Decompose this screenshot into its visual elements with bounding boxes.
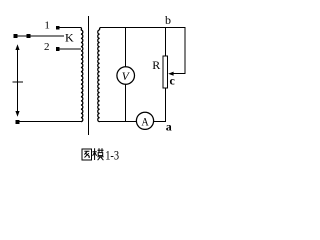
rheostat R body bbox=[163, 56, 168, 88]
svg-text:a: a bbox=[166, 120, 172, 134]
bend into primary coil bbox=[80, 28, 83, 31]
caption char 图 bbox=[82, 149, 91, 160]
caption char 模 bbox=[93, 148, 104, 160]
arrow middle tick bbox=[12, 81, 23, 83]
bend from secondary top bbox=[100, 28, 101, 30]
svg-text:c: c bbox=[170, 74, 176, 88]
wire: right side down to wiper bbox=[184, 28, 186, 74]
wiper arrow head bbox=[168, 72, 173, 76]
svg-text:R: R bbox=[152, 58, 160, 72]
svg-text:A: A bbox=[141, 116, 148, 129]
wire: rheostat branch top bbox=[165, 28, 167, 57]
wire: bottom left bbox=[17, 121, 81, 123]
svg-text:1-3: 1-3 bbox=[105, 149, 119, 163]
svg-text:K: K bbox=[65, 30, 74, 44]
svg-text:b: b bbox=[165, 13, 171, 27]
wire: terminal 1 to primary top bbox=[60, 27, 81, 29]
input voltage double arrow bbox=[17, 47, 19, 115]
svg-text:2: 2 bbox=[44, 41, 50, 53]
arrowhead up bbox=[15, 44, 19, 50]
contact terminal 2 bbox=[56, 47, 60, 51]
arrowhead down bbox=[15, 111, 19, 117]
transformer secondary coil bbox=[98, 30, 100, 122]
wire: voltmeter branch top bbox=[125, 28, 127, 68]
wire: wiper horizontal bbox=[171, 73, 186, 75]
wire: ammeter to corner a bbox=[154, 121, 166, 123]
corner square bottom-left bbox=[15, 120, 19, 124]
transformer core bbox=[88, 16, 90, 135]
wire: terminal 2 tap to primary coil bbox=[60, 48, 82, 50]
voltmeter V1 bbox=[117, 67, 135, 85]
terminal square on switch wire (left end) bbox=[14, 34, 18, 38]
contact terminal 1 bbox=[56, 26, 60, 30]
transformer primary coil bbox=[81, 30, 83, 122]
wire: switch blade K bbox=[15, 35, 64, 37]
wire: rheostat bottom lead bbox=[165, 88, 167, 122]
junction square on switch wire bbox=[27, 34, 31, 38]
ammeter A1 bbox=[136, 112, 153, 129]
svg-text:1: 1 bbox=[44, 19, 50, 31]
wire: bottom right to ammeter bbox=[100, 121, 137, 123]
wire: voltmeter branch bottom bbox=[125, 84, 127, 121]
wire: secondary top (node b wire) bbox=[100, 27, 186, 29]
